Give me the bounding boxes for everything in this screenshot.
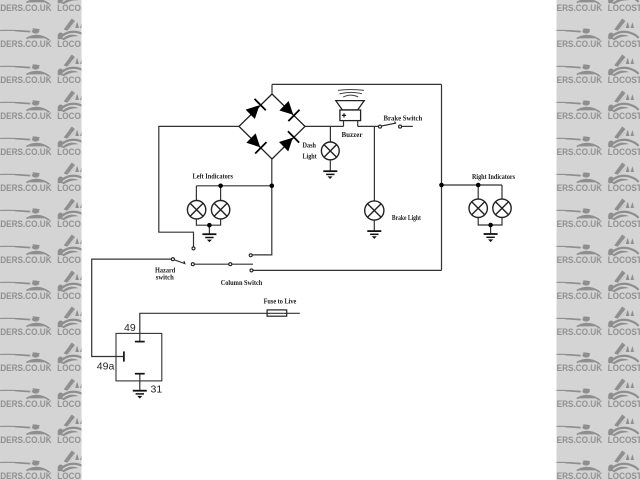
right indicator lamp R2 [493, 199, 511, 217]
junction dot right indicators bottom [488, 223, 493, 228]
wire: top horizontal from bridge top to right vertical [272, 83, 442, 85]
wire: left indicator lamp2 stem [220, 186, 222, 201]
brake light lamp [365, 201, 384, 220]
bridge rectifier diamond [239, 94, 305, 159]
fuse body [267, 310, 287, 316]
wire: fuse to relay pin 49 [140, 313, 300, 341]
wire: buzzer right leg to brake switch [358, 125, 379, 127]
svg-text:Light: Light [303, 151, 318, 160]
left indicator lamp L2 [211, 201, 229, 219]
diode D1 upper-left (points to top vertex) [245, 99, 266, 120]
brake switch left contact [379, 125, 382, 128]
svg-text:switch: switch [156, 274, 174, 282]
svg-text:Brake Light: Brake Light [392, 213, 421, 222]
buzzer right leg [357, 121, 359, 127]
junction dot left indicators bottom [207, 223, 212, 228]
diode D2 upper-right (points to right vertex) [278, 100, 299, 121]
wire: brake switch right contact tail [402, 125, 413, 127]
dash light lamp [321, 142, 339, 160]
brake switch right contact [399, 125, 402, 128]
diode D4 lower-right (points to right vertex) [278, 131, 299, 152]
wire: left indicators ground stem [208, 225, 210, 233]
wire: right indicators bottom bus [478, 218, 502, 226]
white drawing area [82, 0, 557, 480]
relay ground [133, 391, 147, 399]
junction dot right vertical to indicators [439, 183, 444, 188]
junction dot right indicators top [476, 183, 481, 188]
wire: left indicator lamp1 stem [195, 186, 197, 201]
wire: relay pin 31 to ground [139, 374, 141, 390]
buzzer sound arcs [338, 90, 364, 98]
relay pin 31 bar [135, 373, 145, 375]
wire: right vertical down to column switch wire [441, 84, 443, 270]
wire: dash light stem [329, 126, 331, 142]
wire: dash lamp bottom stem [329, 160, 331, 171]
left indicators ground [202, 234, 216, 242]
wire: left indicators top bus [196, 185, 271, 187]
svg-text:Dash: Dash [303, 141, 317, 150]
wire: bridge top stem [271, 84, 273, 94]
right indicators ground [484, 234, 498, 242]
relay pin 49 bar [135, 341, 145, 343]
svg-text:Brake Switch: Brake Switch [384, 113, 423, 122]
relay pin 49a bar [123, 351, 125, 361]
svg-text:31: 31 [151, 383, 163, 395]
buzzer body box [340, 110, 361, 121]
wire: right indicators ground stem [490, 225, 492, 233]
buzzer left leg [343, 121, 345, 127]
wire: left indicators bottom bus [196, 219, 220, 225]
wire: bridge bottom stem down to column switch top contact [252, 159, 272, 255]
wire: brake switch to brake light stem [373, 126, 375, 200]
column switch bottom contact [250, 269, 253, 272]
svg-text:Column Switch: Column Switch [221, 278, 263, 287]
wire: bridge left vertex to hazard top contact [159, 126, 239, 246]
wire: hazard switch feed from relay 49a [92, 259, 172, 356]
svg-text:Right Indicators: Right Indicators [472, 172, 515, 181]
column switch top contact [249, 254, 252, 257]
svg-text:Fuse to Live: Fuse to Live [264, 297, 297, 306]
junction dot left bus to bridge stem [270, 184, 275, 189]
wire: right indicator lamp2 stem [501, 185, 503, 199]
left indicator lamp L1 [187, 201, 205, 219]
diode D3 lower-left (points to bottom vertex) [245, 132, 266, 153]
relay (flasher unit) box [116, 333, 162, 381]
svg-text:Buzzer: Buzzer [342, 130, 364, 139]
dash light ground [323, 171, 337, 179]
brake switch blade [382, 122, 396, 126]
buzzer speaker cone [336, 101, 364, 110]
svg-text:Left Indicators: Left Indicators [193, 172, 234, 181]
svg-text:49: 49 [124, 322, 136, 334]
svg-text:49a: 49a [97, 360, 115, 372]
wire: column switch right contact to right vertical [253, 269, 442, 271]
hazard switch left contact [171, 258, 174, 261]
hazard switch blade contact [191, 263, 194, 266]
hazard switch blade [175, 260, 185, 264]
junction dot left indicators top [218, 184, 223, 189]
wire: right indicators top bus [442, 184, 503, 186]
wire: hazard blade contact to column switch common [194, 263, 229, 265]
wire: brake lamp bottom stem [373, 220, 375, 231]
wire: bridge right vertex to buzzer left leg [305, 125, 344, 127]
brake light ground [367, 231, 381, 239]
hazard switch top contact [192, 247, 195, 250]
right indicator lamp R1 [469, 199, 487, 217]
buzzer plus terminal mark [342, 113, 346, 117]
wire: column switch blade [232, 263, 253, 265]
wire: right indicator lamp1 stem [477, 185, 479, 199]
column switch common contact [229, 263, 232, 266]
